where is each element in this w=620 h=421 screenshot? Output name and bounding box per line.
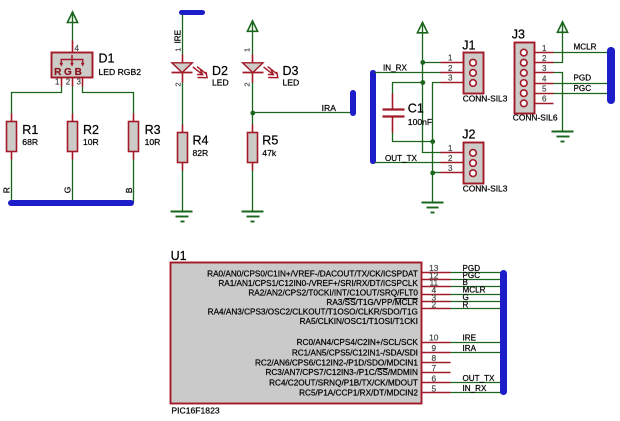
wire power rail down (J1 pin1 to J2 pin1) xyxy=(423,63,441,153)
U1 pin 7 stub xyxy=(422,372,451,374)
svg-text:D1: D1 xyxy=(99,52,115,66)
R1 top stub xyxy=(11,114,13,122)
terminal bar right (MCLR/PGD/PGC) xyxy=(607,47,615,104)
svg-text:2: 2 xyxy=(173,82,182,86)
U1 pin 3 stub xyxy=(422,301,451,303)
svg-text:PGD: PGD xyxy=(574,74,592,83)
wire net PGD xyxy=(554,83,608,85)
terminal bar (bottom bus) xyxy=(8,200,134,206)
wire R3 to bus xyxy=(133,160,135,203)
svg-text:2: 2 xyxy=(448,154,453,163)
resistor R5 xyxy=(248,133,258,163)
D2 anode stub xyxy=(182,55,184,63)
J3 pin stubs xyxy=(535,53,554,104)
svg-text:IRE: IRE xyxy=(173,29,182,43)
R5 bottom stub xyxy=(252,163,254,171)
svg-text:G: G xyxy=(64,67,72,78)
svg-text:2: 2 xyxy=(448,64,453,73)
svg-text:IRA: IRA xyxy=(463,344,477,353)
ground below J2 rail xyxy=(422,203,444,213)
svg-text:1: 1 xyxy=(448,144,453,153)
R4 top stub xyxy=(182,125,184,133)
wire D2 to R4 xyxy=(182,83,184,125)
wire net PGD to bus xyxy=(451,272,501,274)
svg-text:RC2/AN6/CPS6/C12IN2-/P1D/SDO/M: RC2/AN6/CPS6/C12IN2-/P1D/SDO/MDCIN1 xyxy=(255,359,418,368)
LED D1 (LED RGB2) xyxy=(52,53,93,79)
U1 pin 4 stub xyxy=(422,294,451,296)
svg-text:10: 10 xyxy=(429,333,439,343)
bus bar right of U1 xyxy=(500,270,507,395)
svg-text:1: 1 xyxy=(448,54,453,63)
svg-text:6: 6 xyxy=(431,373,436,383)
U1 pin 9 stub xyxy=(422,352,451,354)
svg-text:R: R xyxy=(54,67,62,78)
svg-text:CONN-SIL6: CONN-SIL6 xyxy=(513,112,558,122)
svg-text:RC5/P1A/CCP1/RX/DT/MDCIN2: RC5/P1A/CCP1/RX/DT/MDCIN2 xyxy=(299,389,418,398)
svg-text:1: 1 xyxy=(243,48,252,52)
svg-text:2: 2 xyxy=(66,78,71,87)
D1 pin 4 stub xyxy=(72,41,74,60)
svg-text:RA1/AN1/CPS1/C12IN0-/VREF+/SRI: RA1/AN1/CPS1/C12IN0-/VREF+/SRI/RX/DT/ICS… xyxy=(218,279,418,288)
wire J3 pin3 to ground xyxy=(554,73,563,132)
wire power to J1 pin1 junction xyxy=(422,33,424,63)
pin numbers 1 2 3 of D1 xyxy=(55,78,81,87)
svg-text:J2: J2 xyxy=(462,128,475,142)
svg-text:RC4/C2OUT/SRNQ/P1B/TX/CK/MDOUT: RC4/C2OUT/SRNQ/P1B/TX/CK/MDOUT xyxy=(269,379,418,388)
ground below R5 xyxy=(242,212,264,222)
svg-text:R: R xyxy=(2,187,12,193)
R2 top stub xyxy=(72,114,74,122)
wire net IN_RX to J1 pin 2 xyxy=(375,72,441,74)
junction dot C1 bottom xyxy=(430,139,435,144)
J2 pin stubs xyxy=(441,153,464,173)
junction dot C1 top branch xyxy=(420,80,425,85)
svg-text:D2: D2 xyxy=(212,64,228,78)
svg-text:2: 2 xyxy=(431,300,436,310)
wire R2 to bus xyxy=(72,160,74,203)
power symbol above D3 xyxy=(247,21,257,32)
svg-text:RA3/SS/T1G/VPP/MCLR: RA3/SS/T1G/VPP/MCLR xyxy=(326,298,418,307)
svg-text:IN_RX: IN_RX xyxy=(463,384,487,393)
svg-text:RC3/AN7/CPS7/C12IN3-/P1C/SS/MD: RC3/AN7/CPS7/C12IN3-/P1C/SS/MDMIN xyxy=(265,368,418,377)
svg-text:IRA: IRA xyxy=(322,103,337,113)
terminal bar IRE xyxy=(179,10,205,15)
power symbol above D1 xyxy=(67,12,77,23)
svg-text:RC0/AN4/CPS4/C2IN+/SCL/SCK: RC0/AN4/CPS4/C2IN+/SCL/SCK xyxy=(297,338,419,347)
R3 top stub xyxy=(133,114,135,122)
svg-text:4: 4 xyxy=(542,74,547,83)
R5 top stub xyxy=(252,125,254,133)
svg-text:8: 8 xyxy=(431,353,436,363)
resistor R4 xyxy=(178,133,188,163)
resistor R2 xyxy=(68,122,78,152)
svg-text:RC1/AN5/CPS5/C12IN1-/SDA/SDI: RC1/AN5/CPS5/C12IN1-/SDA/SDI xyxy=(292,348,418,357)
D3 anode stub xyxy=(252,55,254,63)
svg-text:R5: R5 xyxy=(262,134,278,148)
wire to J2 pin 3 xyxy=(433,172,441,174)
R4 bottom stub xyxy=(182,163,184,171)
J3 pin numbers 1-6 xyxy=(542,44,547,104)
LED D2 xyxy=(172,63,208,78)
U1 pin 10 stub xyxy=(422,342,451,344)
svg-text:IRE: IRE xyxy=(463,333,477,342)
terminal bar IRA xyxy=(350,90,356,116)
svg-text:OUT_TX: OUT_TX xyxy=(463,374,496,383)
wire C1 bottom to gnd rail xyxy=(393,133,433,142)
wire net G: D1 pin2 to R2 xyxy=(72,87,74,114)
wire net PGC to bus xyxy=(451,279,501,281)
svg-text:R3: R3 xyxy=(145,123,161,137)
svg-text:2: 2 xyxy=(243,82,252,86)
wire net B to bus xyxy=(451,286,501,288)
wire IRE bar to D2 xyxy=(182,15,184,55)
svg-text:OUT_TX: OUT_TX xyxy=(385,154,418,163)
wire net B: D1 pin3 to R3 xyxy=(83,87,134,114)
wire D1 pin4 to power xyxy=(72,23,74,41)
wire power to J3 pin2 xyxy=(554,31,563,63)
U1 pin 2 stub xyxy=(422,308,451,310)
svg-text:LED: LED xyxy=(283,78,300,88)
wire net G to bus xyxy=(451,301,501,303)
svg-text:PIC16F1823: PIC16F1823 xyxy=(171,405,219,415)
svg-text:1: 1 xyxy=(173,48,182,52)
U1 pin 11 stub xyxy=(422,286,451,288)
U1 pin 8 stub xyxy=(422,362,451,364)
connector J2 xyxy=(464,143,484,184)
U1 pin 13 stub xyxy=(422,272,451,274)
J2 pin numbers 1 2 3 xyxy=(448,144,453,173)
svg-text:82R: 82R xyxy=(193,148,209,158)
wire net R to bus xyxy=(451,308,501,310)
svg-text:3: 3 xyxy=(448,164,453,173)
LED D3 xyxy=(243,63,278,78)
svg-text:6: 6 xyxy=(542,95,547,104)
svg-text:7: 7 xyxy=(431,363,436,373)
wire R1 to bus xyxy=(11,160,13,203)
J1 pin stubs xyxy=(441,63,464,83)
wire net OUT_TX to bus xyxy=(451,382,501,384)
svg-text:RA5/CLKIN/OSC1/T1OSI/T1CKI: RA5/CLKIN/OSC1/T1OSI/T1CKI xyxy=(300,317,418,326)
svg-text:J3: J3 xyxy=(512,28,525,42)
resistor R1 xyxy=(7,122,17,152)
D1 pin stubs 1,2,3 xyxy=(61,78,63,87)
svg-text:1: 1 xyxy=(55,78,60,87)
junction dot J1 pin1 xyxy=(420,60,425,65)
resistor R3 xyxy=(129,122,139,152)
svg-text:5: 5 xyxy=(431,383,436,393)
wire net IRA to terminal xyxy=(253,112,351,114)
ground below J3 xyxy=(552,132,574,142)
wire R4 to ground xyxy=(182,171,184,212)
svg-text:3: 3 xyxy=(542,64,547,73)
svg-text:J1: J1 xyxy=(462,38,475,52)
IC U1 body xyxy=(171,263,422,404)
svg-text:R4: R4 xyxy=(193,134,209,148)
svg-text:68R: 68R xyxy=(22,137,38,147)
svg-text:D3: D3 xyxy=(283,64,299,78)
svg-text:LED: LED xyxy=(212,78,229,88)
svg-text:2: 2 xyxy=(542,54,547,63)
svg-text:RA2/AN2/CPS2/T0CKI/INT/C1OUT/S: RA2/AN2/CPS2/T0CKI/INT/C1OUT/SRQ/FLT0 xyxy=(248,289,418,298)
wire to J1 pin 1 xyxy=(423,62,441,64)
power symbol above J1 xyxy=(417,22,427,33)
svg-text:U1: U1 xyxy=(171,249,187,263)
connector J1 xyxy=(464,53,484,94)
svg-text:R: R xyxy=(463,300,469,309)
R1 bottom stub xyxy=(11,152,13,160)
wire net IRA to bus xyxy=(451,352,501,354)
wire net IN_RX to bus xyxy=(451,392,501,394)
capacitor C1 xyxy=(383,94,405,133)
svg-text:RA0/AN0/CPS0/C1IN+/VREF-/DACOU: RA0/AN0/CPS0/C1IN+/VREF-/DACOUT/TX/CK/IC… xyxy=(207,269,418,278)
U1 pin 6 stub xyxy=(422,382,451,384)
wire net MCLR xyxy=(554,52,608,54)
U1 pin 12 stub xyxy=(422,279,451,281)
wire net PGC xyxy=(554,93,608,95)
J1 pin numbers 1 2 3 xyxy=(448,54,453,83)
svg-text:G: G xyxy=(62,186,72,193)
wire branch to C1 top xyxy=(393,83,423,94)
svg-text:10R: 10R xyxy=(83,137,99,147)
wire net R: D1 pin1 to R1 xyxy=(12,87,62,114)
svg-text:100nF: 100nF xyxy=(408,117,432,127)
svg-text:B: B xyxy=(75,67,82,78)
svg-text:CONN-SIL3: CONN-SIL3 xyxy=(463,184,508,194)
svg-text:5: 5 xyxy=(542,84,547,93)
wire net OUT_TX to J2 pin 2 xyxy=(375,162,441,164)
svg-text:47k: 47k xyxy=(262,148,277,158)
power symbol above J3 xyxy=(557,22,567,33)
R3 bottom stub xyxy=(133,152,135,160)
svg-text:1: 1 xyxy=(542,44,547,53)
U1 pin 5 stub xyxy=(422,392,451,394)
junction dot J2 pin3 xyxy=(430,171,435,176)
wire net MCLR to bus xyxy=(451,294,501,296)
svg-text:IN_RX: IN_RX xyxy=(383,64,407,73)
terminal bar left (IN_RX/OUT_TX) xyxy=(370,70,376,164)
svg-text:3: 3 xyxy=(448,74,453,83)
svg-text:R2: R2 xyxy=(83,123,99,137)
svg-text:CONN-SIL3: CONN-SIL3 xyxy=(463,94,508,104)
ground below R4 xyxy=(171,212,193,222)
svg-text:10R: 10R xyxy=(145,137,161,147)
svg-text:R1: R1 xyxy=(22,123,38,137)
connector J3 xyxy=(515,43,535,114)
svg-text:RA4/AN3/CPS3/OSC2/CLKOUT/T1OSO: RA4/AN3/CPS3/OSC2/CLKOUT/T1OSO/CLKR/SDO/… xyxy=(208,308,418,317)
D3 cathode stub xyxy=(252,73,254,83)
svg-text:B: B xyxy=(124,187,134,193)
svg-text:C1: C1 xyxy=(408,102,424,116)
wire J1 pin 3 to gnd rail xyxy=(433,83,441,203)
svg-text:3: 3 xyxy=(76,78,81,87)
R2 bottom stub xyxy=(72,152,74,160)
svg-text:PGC: PGC xyxy=(574,84,592,93)
wire R5 to ground xyxy=(252,171,254,212)
svg-text:LED RGB2: LED RGB2 xyxy=(99,67,142,77)
wire D3 to R5 xyxy=(252,83,254,125)
wire power to D3 xyxy=(252,32,254,55)
wire net IRE to bus xyxy=(451,342,501,344)
junction dot IRA xyxy=(250,111,255,116)
svg-text:9: 9 xyxy=(431,343,436,353)
D2 cathode stub xyxy=(182,73,184,83)
svg-text:MCLR: MCLR xyxy=(574,43,597,52)
